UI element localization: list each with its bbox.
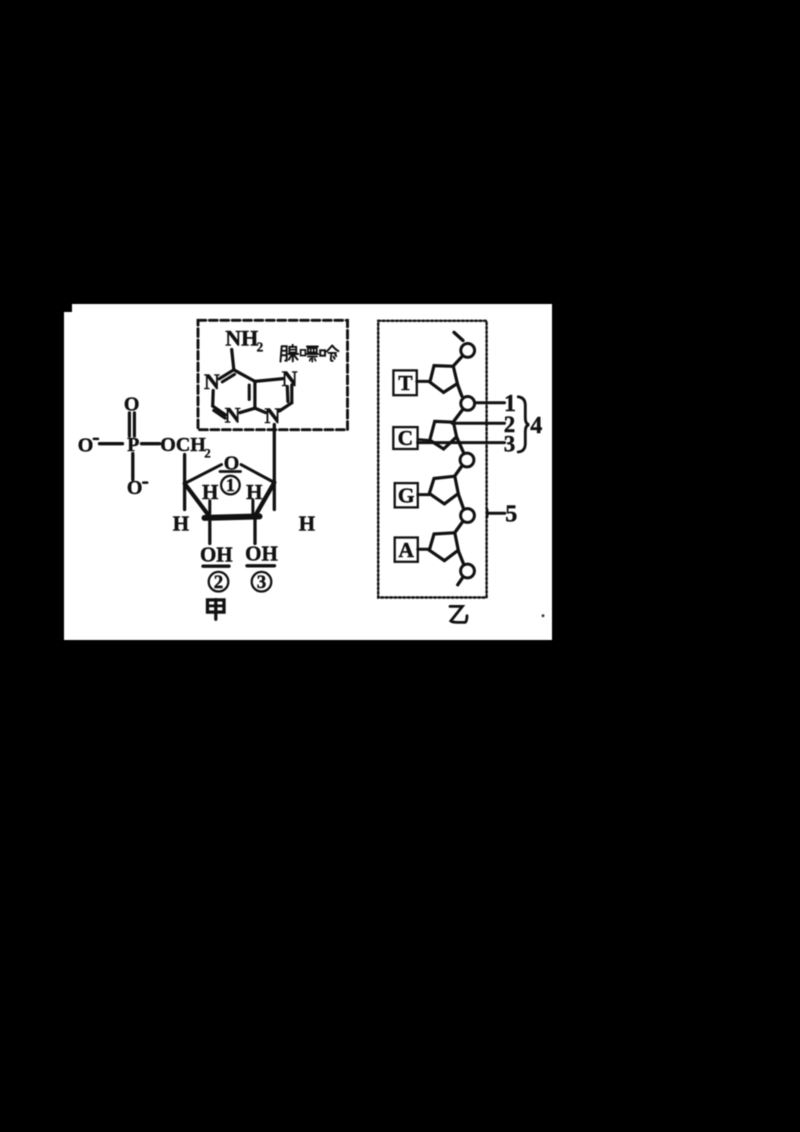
bond C2=N3 bbox=[213, 406, 226, 415]
ribose ring lower-left edge bbox=[185, 484, 211, 518]
strand tail bottom bbox=[458, 578, 463, 585]
svg-text:3: 3 bbox=[257, 572, 267, 593]
underline OH left bbox=[203, 565, 229, 568]
strand tail top bbox=[454, 332, 463, 340]
ribose ring bottom edge bbox=[205, 516, 260, 518]
dotted box bbox=[378, 321, 486, 598]
svg-text:1: 1 bbox=[226, 475, 235, 495]
OH stem right bbox=[253, 520, 256, 544]
sugar T pentagon bbox=[430, 366, 458, 393]
svg-text:C: C bbox=[398, 426, 414, 450]
adenine label 腺 bbox=[281, 345, 299, 362]
phosphate circle 3 bbox=[460, 453, 474, 467]
H stem right bbox=[251, 500, 254, 513]
N9-C1' descender bbox=[273, 425, 276, 510]
bond circle4 to sugar A bbox=[455, 522, 462, 532]
svg-text:OCH: OCH bbox=[160, 434, 206, 456]
bond circle1 to sugar T bbox=[454, 357, 462, 366]
svg-text:4: 4 bbox=[530, 413, 542, 439]
phosphate circle 5 bbox=[461, 564, 475, 578]
base A box bbox=[395, 538, 418, 562]
speck bbox=[542, 614, 545, 617]
bond C5-N7 bbox=[255, 379, 283, 382]
svg-text:2: 2 bbox=[257, 340, 264, 355]
pointer line to label 1 bbox=[476, 401, 505, 404]
bond sugar G to circle4 bbox=[458, 494, 463, 508]
bond C8-N9 bbox=[279, 403, 291, 411]
phosphate circle 4 bbox=[461, 509, 475, 523]
H stem left bbox=[208, 501, 211, 514]
bond sugar C to circle3 bbox=[457, 437, 464, 453]
svg-text:N: N bbox=[225, 403, 241, 428]
notch top-left bbox=[64, 304, 72, 312]
svg-text:O: O bbox=[78, 434, 94, 456]
label yi 乙 bbox=[450, 606, 467, 622]
bond N3-C4 bbox=[240, 408, 255, 413]
svg-text:O: O bbox=[127, 477, 143, 499]
bond C to sugar upper line bbox=[418, 438, 430, 441]
svg-text:N: N bbox=[282, 366, 298, 391]
svg-text:A: A bbox=[398, 538, 414, 562]
bond P to O- bottom bbox=[131, 454, 134, 480]
phosphate circle 2 bbox=[461, 397, 475, 411]
ribose ring upper-right edge bbox=[241, 465, 274, 483]
bond C5'-C4' vertical bbox=[183, 455, 186, 510]
circled label 2 bbox=[209, 572, 229, 592]
svg-text:2: 2 bbox=[204, 446, 211, 461]
adenine label 嘌 bbox=[301, 347, 319, 362]
pointer tick and line to label 5 bbox=[486, 510, 488, 518]
ribose ring lower-right edge bbox=[255, 483, 274, 517]
base C box bbox=[393, 427, 417, 449]
svg-text:3: 3 bbox=[504, 432, 516, 457]
sugar A pentagon bbox=[429, 533, 458, 561]
svg-text:O: O bbox=[124, 394, 140, 416]
bond sugar A to circle5 bbox=[458, 551, 463, 565]
pointer line to label 3 bbox=[418, 441, 505, 444]
svg-text:2: 2 bbox=[214, 572, 224, 593]
sugar C pentagon bbox=[430, 421, 457, 449]
white panel bbox=[64, 304, 552, 640]
svg-text:T: T bbox=[398, 371, 413, 395]
adenine label 呤 bbox=[320, 346, 338, 361]
svg-text:NH: NH bbox=[225, 325, 258, 350]
svg-text:5: 5 bbox=[505, 502, 517, 528]
svg-text:OH: OH bbox=[245, 542, 278, 566]
bond circle2 to sugar C bbox=[454, 410, 462, 421]
svg-text:H: H bbox=[173, 511, 189, 535]
bond NH2-C6 bbox=[232, 350, 234, 370]
OH stem left bbox=[208, 522, 211, 544]
ribose ring upper-left edge bbox=[185, 465, 222, 484]
base G box bbox=[395, 483, 418, 507]
svg-text:H: H bbox=[299, 511, 315, 535]
circled label 1 bbox=[221, 476, 240, 495]
bond circle3 to sugar G bbox=[455, 467, 462, 476]
bond G to sugar bbox=[418, 493, 430, 496]
bond T to sugar bbox=[417, 380, 430, 383]
bond N7=C8 bbox=[286, 387, 290, 402]
svg-text:OH: OH bbox=[200, 543, 233, 567]
phosphate circle 1 bbox=[461, 344, 475, 358]
bond O- to P bbox=[100, 442, 123, 445]
bond C5-C6 bbox=[234, 370, 255, 382]
label jia 甲 bbox=[208, 600, 225, 620]
sugar G pentagon bbox=[429, 476, 458, 504]
pointer line to label 2 bbox=[452, 422, 505, 425]
dashed box bbox=[198, 320, 348, 429]
brace bbox=[518, 397, 529, 452]
base T box bbox=[393, 370, 416, 395]
svg-text:N: N bbox=[264, 403, 280, 428]
bond P to OCH2 bbox=[142, 442, 160, 445]
bond C6=N1 bbox=[219, 370, 234, 379]
bond sugar T to circle2 bbox=[457, 384, 461, 396]
bond N1-C2 bbox=[211, 391, 215, 406]
bond A to sugar bbox=[418, 548, 430, 551]
circled label 3 bbox=[252, 572, 272, 592]
bond C4-N9 bbox=[255, 408, 266, 413]
bond C4=C5 bbox=[253, 381, 256, 408]
P=O double bond bbox=[128, 413, 131, 436]
svg-text:G: G bbox=[398, 484, 415, 508]
underline OH right bbox=[247, 564, 275, 567]
